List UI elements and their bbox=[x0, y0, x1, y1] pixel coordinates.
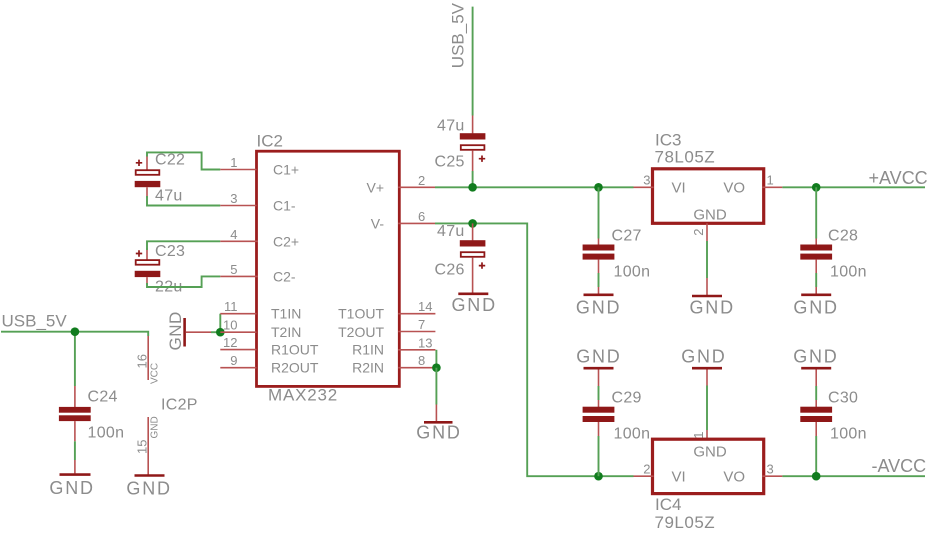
wire C25 to V+ rail bbox=[472, 171, 474, 187]
pin 5 C2- bbox=[220, 262, 296, 285]
wire T1IN down to T2IN bbox=[219, 314, 221, 333]
pin 2 IC4 VI bbox=[634, 461, 654, 476]
capacitor C30 bbox=[800, 370, 866, 477]
svg-text:T2IN: T2IN bbox=[271, 324, 301, 340]
svg-text:100n: 100n bbox=[614, 426, 651, 443]
svg-text:GND: GND bbox=[693, 207, 727, 224]
node V- at C26 bbox=[468, 219, 477, 228]
svg-text:C28: C28 bbox=[828, 228, 858, 245]
svg-text:8: 8 bbox=[418, 353, 425, 368]
net V- wire bbox=[435, 223, 634, 476]
svg-text:GND: GND bbox=[690, 298, 735, 318]
pin 14 T1OUT bbox=[338, 299, 435, 322]
svg-text:V+: V+ bbox=[366, 179, 384, 195]
svg-text:+AVCC: +AVCC bbox=[869, 168, 928, 188]
wire R2IN to ground bbox=[435, 368, 437, 405]
net -AVCC wire bbox=[782, 475, 925, 477]
svg-text:R1OUT: R1OUT bbox=[271, 342, 319, 358]
svg-text:15: 15 bbox=[134, 440, 149, 454]
pin 6 V- bbox=[371, 209, 435, 232]
ground above C29 bbox=[576, 347, 621, 369]
pin 2 IC3 GND bbox=[691, 223, 707, 295]
svg-text:GND: GND bbox=[150, 416, 161, 438]
pin 1 IC3 VO bbox=[763, 173, 783, 188]
svg-text:3: 3 bbox=[643, 173, 650, 188]
op IC3 78L05Z body bbox=[653, 131, 764, 224]
svg-text:C24: C24 bbox=[88, 389, 118, 406]
capacitor C26 bbox=[435, 223, 486, 293]
svg-text:2: 2 bbox=[691, 229, 706, 236]
ground under C28 bbox=[793, 295, 838, 318]
wire R1IN to R2IN bbox=[435, 350, 437, 368]
power part IC2P bbox=[134, 336, 197, 475]
node -AVCC at C30 bbox=[812, 472, 821, 481]
wire C22 top to pin 1 bbox=[147, 152, 220, 169]
pin 7 T2OUT bbox=[338, 317, 435, 340]
svg-text:C23: C23 bbox=[155, 243, 185, 260]
op IC2 MAX232 body bbox=[257, 132, 400, 405]
svg-text:USB_5V: USB_5V bbox=[449, 2, 468, 68]
svg-text:R2IN: R2IN bbox=[352, 360, 384, 376]
svg-text:GND: GND bbox=[49, 478, 94, 498]
svg-text:C2-: C2- bbox=[273, 269, 296, 285]
svg-text:VO: VO bbox=[723, 180, 745, 197]
svg-text:IC4: IC4 bbox=[655, 495, 681, 514]
ground under C24 bbox=[49, 475, 94, 498]
pin 3 IC3 VI bbox=[634, 173, 654, 188]
svg-text:V-: V- bbox=[371, 215, 385, 231]
node +AVCC at C28 bbox=[812, 183, 821, 192]
capacitor C25 bbox=[435, 116, 486, 172]
svg-text:100n: 100n bbox=[614, 264, 651, 281]
svg-text:T2OUT: T2OUT bbox=[338, 324, 384, 340]
pin 1 IC4 GND bbox=[691, 370, 707, 440]
svg-text:C1-: C1- bbox=[273, 198, 296, 214]
svg-text:13: 13 bbox=[418, 335, 432, 350]
svg-text:VI: VI bbox=[672, 180, 686, 197]
svg-text:GND: GND bbox=[416, 423, 461, 443]
capacitor C22 bbox=[135, 152, 186, 205]
pin 3 C1- bbox=[220, 191, 296, 214]
svg-text:100n: 100n bbox=[830, 426, 867, 443]
svg-text:9: 9 bbox=[230, 353, 237, 368]
svg-text:GND: GND bbox=[576, 347, 621, 367]
svg-text:GND: GND bbox=[126, 479, 171, 499]
wire GND to T2IN junction bbox=[211, 331, 220, 333]
svg-text:C25: C25 bbox=[435, 154, 465, 171]
svg-text:R1IN: R1IN bbox=[352, 342, 384, 358]
node T2IN junction bbox=[216, 328, 225, 337]
svg-text:C27: C27 bbox=[612, 228, 642, 245]
svg-text:GND: GND bbox=[166, 311, 185, 350]
pin 10 T2IN bbox=[220, 318, 301, 340]
svg-text:T1IN: T1IN bbox=[271, 306, 301, 322]
svg-text:USB_5V: USB_5V bbox=[2, 312, 68, 331]
svg-text:5: 5 bbox=[230, 262, 237, 277]
svg-text:IC2: IC2 bbox=[257, 132, 283, 151]
svg-text:-AVCC: -AVCC bbox=[872, 456, 927, 476]
svg-text:11: 11 bbox=[224, 299, 238, 314]
capacitor C28 bbox=[800, 187, 866, 293]
ground under C26 bbox=[452, 294, 497, 315]
svg-text:C1+: C1+ bbox=[273, 162, 299, 178]
ground under R2IN bbox=[416, 405, 461, 443]
net USB_5V left wire bbox=[1, 332, 148, 336]
ground under IC2P bbox=[126, 476, 171, 499]
pin 2 V+ bbox=[366, 173, 435, 196]
svg-text:3: 3 bbox=[767, 461, 774, 476]
capacitor C27 bbox=[583, 187, 651, 293]
ground under IC3 bbox=[690, 296, 735, 318]
svg-text:GND: GND bbox=[681, 347, 726, 367]
svg-text:IC2P: IC2P bbox=[161, 397, 198, 414]
svg-text:C30: C30 bbox=[828, 390, 858, 407]
pin 1 C1+ bbox=[220, 155, 299, 178]
svg-text:16: 16 bbox=[134, 354, 149, 368]
svg-text:C22: C22 bbox=[155, 152, 185, 169]
svg-text:R2OUT: R2OUT bbox=[271, 360, 319, 376]
svg-text:VI: VI bbox=[672, 469, 686, 486]
svg-text:47u: 47u bbox=[437, 223, 465, 240]
svg-text:47u: 47u bbox=[437, 118, 465, 135]
svg-text:VO: VO bbox=[723, 469, 745, 486]
net V+ rail bbox=[435, 186, 634, 188]
svg-text:10: 10 bbox=[223, 318, 237, 333]
svg-text:4: 4 bbox=[230, 227, 237, 242]
pin 3 IC4 VO bbox=[763, 461, 783, 476]
net USB_5V top wire bbox=[472, 7, 474, 116]
ground at T1IN/T2IN bbox=[166, 311, 211, 350]
net +AVCC wire bbox=[782, 186, 925, 188]
svg-text:14: 14 bbox=[418, 299, 432, 314]
svg-text:78L05Z: 78L05Z bbox=[655, 148, 716, 167]
svg-text:7: 7 bbox=[418, 317, 425, 332]
svg-text:GND: GND bbox=[452, 295, 497, 315]
svg-text:100n: 100n bbox=[830, 264, 867, 281]
svg-text:GND: GND bbox=[576, 298, 621, 318]
ground above IC4 bbox=[681, 347, 726, 369]
svg-text:T1OUT: T1OUT bbox=[338, 306, 384, 322]
pin 11 T1IN bbox=[220, 299, 301, 322]
node V- at C29 bbox=[594, 472, 603, 481]
svg-text:GND: GND bbox=[793, 298, 838, 318]
pin 9 R2OUT bbox=[220, 353, 319, 376]
svg-text:3: 3 bbox=[230, 191, 237, 206]
capacitor C23 bbox=[135, 243, 186, 296]
ground above C30 bbox=[793, 347, 838, 369]
pin 8 R2IN bbox=[352, 353, 435, 376]
svg-text:79L05Z: 79L05Z bbox=[655, 513, 716, 532]
svg-text:2: 2 bbox=[418, 173, 425, 188]
wire C22 bottom to pin 3 bbox=[147, 196, 220, 206]
wire C23 bottom to pin 5 bbox=[147, 276, 220, 287]
svg-text:C2+: C2+ bbox=[273, 234, 299, 250]
svg-text:1: 1 bbox=[767, 173, 774, 188]
pin 12 R1OUT bbox=[220, 335, 319, 358]
op IC4 79L05Z body bbox=[653, 439, 764, 532]
svg-text:47u: 47u bbox=[155, 188, 183, 205]
svg-text:100n: 100n bbox=[88, 425, 125, 442]
svg-text:2: 2 bbox=[643, 461, 650, 476]
svg-text:GND: GND bbox=[793, 347, 838, 367]
svg-text:C26: C26 bbox=[435, 262, 465, 279]
node USB_5V junction at C24 bbox=[71, 327, 80, 336]
node R2IN junction bbox=[432, 363, 441, 372]
node V+ at C27 bbox=[594, 183, 603, 192]
wire C23 top to pin 4 bbox=[147, 241, 220, 250]
pin 13 R1IN bbox=[352, 335, 435, 357]
ground under C27 bbox=[576, 295, 621, 318]
capacitor C24 bbox=[59, 386, 124, 473]
svg-text:MAX232: MAX232 bbox=[268, 386, 338, 405]
svg-text:C29: C29 bbox=[612, 390, 642, 407]
node V+ at C25 bbox=[468, 183, 477, 192]
svg-text:GND: GND bbox=[693, 444, 727, 461]
svg-text:VCC: VCC bbox=[150, 363, 161, 384]
svg-text:12: 12 bbox=[223, 335, 237, 350]
wire C24 drop bbox=[74, 332, 76, 386]
svg-text:1: 1 bbox=[230, 155, 237, 170]
svg-text:6: 6 bbox=[418, 209, 425, 224]
pin 4 C2+ bbox=[220, 227, 299, 250]
capacitor C29 bbox=[583, 370, 651, 477]
